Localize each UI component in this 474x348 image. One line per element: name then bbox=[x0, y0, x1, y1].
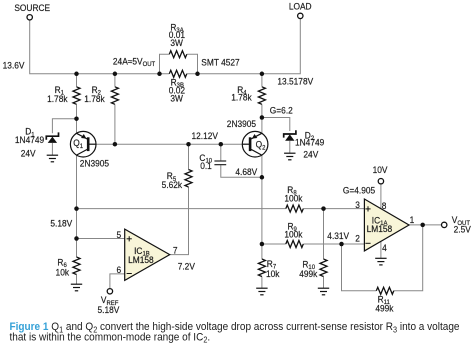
svg-text:10k: 10k bbox=[266, 269, 280, 279]
svg-text:LM158: LM158 bbox=[128, 255, 154, 265]
svg-text:6: 6 bbox=[117, 265, 122, 275]
svg-text:2: 2 bbox=[355, 233, 360, 243]
svg-text:12.12V: 12.12V bbox=[192, 131, 219, 141]
svg-text:3W: 3W bbox=[170, 93, 183, 103]
svg-text:2N3905: 2N3905 bbox=[227, 119, 256, 129]
svg-text:5.18V: 5.18V bbox=[50, 218, 72, 228]
svg-text:3: 3 bbox=[355, 200, 360, 210]
svg-text:1N4749: 1N4749 bbox=[295, 137, 324, 147]
svg-text:8: 8 bbox=[382, 201, 387, 211]
svg-text:2N3905: 2N3905 bbox=[80, 158, 109, 168]
svg-text:1.78k: 1.78k bbox=[84, 94, 105, 104]
svg-text:13.5178V: 13.5178V bbox=[277, 76, 313, 86]
svg-text:7.2V: 7.2V bbox=[178, 261, 195, 271]
svg-text:5.62k: 5.62k bbox=[162, 180, 183, 190]
svg-text:5.18V: 5.18V bbox=[98, 305, 120, 315]
svg-text:10V: 10V bbox=[373, 165, 388, 175]
svg-text:2.5V: 2.5V bbox=[454, 224, 471, 234]
svg-text:G=4.905: G=4.905 bbox=[343, 185, 376, 195]
svg-text:LOAD: LOAD bbox=[289, 1, 312, 11]
svg-text:1: 1 bbox=[410, 215, 415, 225]
svg-text:499k: 499k bbox=[299, 269, 318, 279]
svg-text:SMT 4527: SMT 4527 bbox=[201, 57, 240, 67]
svg-text:1N4749: 1N4749 bbox=[15, 135, 44, 145]
svg-text:LM158: LM158 bbox=[367, 224, 393, 234]
svg-text:13.6V: 13.6V bbox=[3, 60, 25, 70]
svg-text:that is within the common-mode: that is within the common-mode range of … bbox=[10, 331, 211, 345]
svg-text:100k: 100k bbox=[284, 193, 303, 203]
svg-text:1.78k: 1.78k bbox=[47, 94, 68, 104]
svg-text:G=6.2: G=6.2 bbox=[270, 105, 293, 115]
svg-text:0.1: 0.1 bbox=[200, 161, 212, 171]
svg-text:24V: 24V bbox=[303, 149, 318, 159]
svg-text:7: 7 bbox=[173, 245, 178, 255]
svg-text:24V: 24V bbox=[21, 148, 36, 158]
svg-text:4: 4 bbox=[382, 243, 387, 253]
svg-text:4.68V: 4.68V bbox=[235, 167, 257, 177]
svg-text:5: 5 bbox=[117, 230, 122, 240]
svg-text:100k: 100k bbox=[284, 229, 303, 239]
svg-text:1.78k: 1.78k bbox=[231, 92, 252, 102]
svg-text:SOURCE: SOURCE bbox=[14, 3, 50, 13]
svg-text:499k: 499k bbox=[375, 303, 394, 313]
svg-text:4.31V: 4.31V bbox=[327, 231, 349, 241]
svg-text:10k: 10k bbox=[56, 267, 70, 277]
svg-text:3W: 3W bbox=[170, 38, 183, 48]
